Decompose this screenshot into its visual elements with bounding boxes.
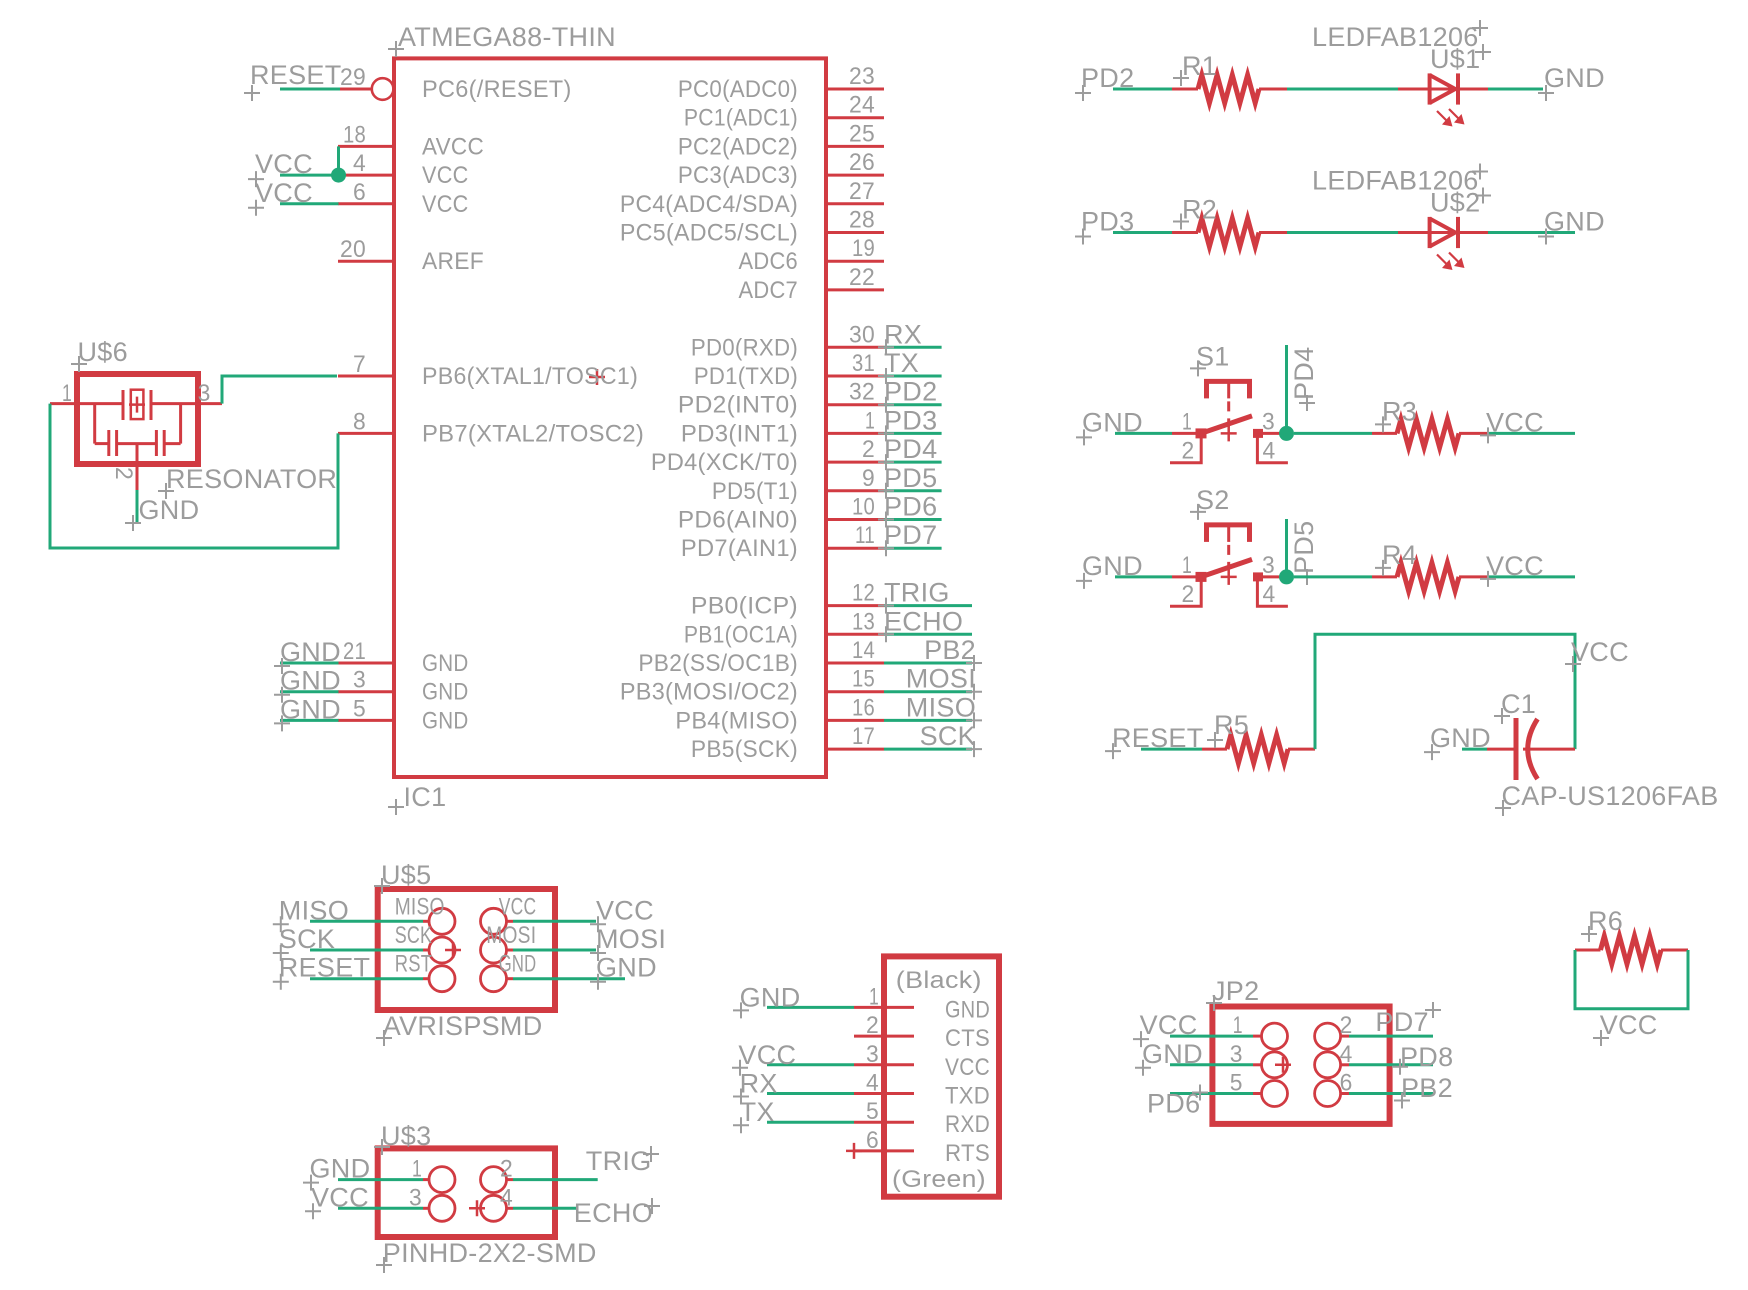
svg-text:8: 8 bbox=[353, 408, 366, 435]
svg-text:22: 22 bbox=[849, 264, 875, 291]
svg-text:PC3(ADC3): PC3(ADC3) bbox=[678, 162, 798, 189]
svg-text:VCC: VCC bbox=[311, 1182, 369, 1212]
svg-text:GND: GND bbox=[422, 679, 469, 706]
svg-text:20: 20 bbox=[340, 236, 366, 263]
svg-text:GND: GND bbox=[280, 666, 341, 696]
svg-text:VCC: VCC bbox=[1486, 551, 1544, 581]
svg-text:PD5(T1): PD5(T1) bbox=[712, 478, 798, 505]
svg-text:PD4(XCK/T0): PD4(XCK/T0) bbox=[651, 449, 798, 476]
svg-text:PC5(ADC5/SCL): PC5(ADC5/SCL) bbox=[620, 220, 798, 247]
svg-text:TX: TX bbox=[740, 1097, 775, 1127]
svg-text:RESET: RESET bbox=[250, 60, 342, 90]
svg-text:VCC: VCC bbox=[499, 893, 537, 920]
svg-text:JP2: JP2 bbox=[1212, 976, 1259, 1006]
svg-text:CTS: CTS bbox=[945, 1025, 990, 1052]
svg-text:GND: GND bbox=[139, 495, 200, 525]
svg-text:PB6(XTAL1/TOSC1): PB6(XTAL1/TOSC1) bbox=[422, 363, 638, 390]
svg-text:4: 4 bbox=[353, 150, 366, 177]
svg-text:PB0(ICP): PB0(ICP) bbox=[691, 593, 798, 620]
svg-text:3: 3 bbox=[1230, 1041, 1243, 1068]
svg-text:3: 3 bbox=[353, 667, 366, 694]
svg-text:PB7(XTAL2/TOSC2): PB7(XTAL2/TOSC2) bbox=[422, 420, 644, 447]
svg-text:10: 10 bbox=[852, 494, 875, 521]
svg-text:PC6(/RESET): PC6(/RESET) bbox=[422, 76, 572, 103]
svg-text:AREF: AREF bbox=[422, 248, 484, 275]
svg-text:GND: GND bbox=[310, 1154, 371, 1184]
svg-text:SCK: SCK bbox=[920, 721, 976, 751]
svg-text:RX: RX bbox=[740, 1069, 778, 1099]
svg-text:AVCC: AVCC bbox=[422, 133, 484, 160]
svg-text:11: 11 bbox=[855, 522, 875, 549]
svg-text:2: 2 bbox=[1182, 437, 1195, 464]
svg-text:27: 27 bbox=[849, 178, 875, 205]
svg-text:VCC: VCC bbox=[1486, 407, 1544, 437]
svg-text:RTS: RTS bbox=[945, 1140, 990, 1167]
svg-text:IC1: IC1 bbox=[404, 782, 447, 812]
svg-text:PD5: PD5 bbox=[884, 463, 937, 493]
svg-text:28: 28 bbox=[849, 207, 875, 234]
svg-text:GND: GND bbox=[1142, 1039, 1203, 1069]
svg-text:PD7: PD7 bbox=[884, 520, 937, 550]
svg-text:2: 2 bbox=[1340, 1012, 1353, 1039]
svg-text:1: 1 bbox=[412, 1156, 422, 1183]
svg-text:PB5(SCK): PB5(SCK) bbox=[691, 736, 798, 763]
svg-text:GND: GND bbox=[280, 637, 341, 667]
svg-text:GND: GND bbox=[499, 951, 537, 978]
svg-text:4: 4 bbox=[1263, 437, 1276, 464]
svg-text:TX: TX bbox=[884, 348, 919, 378]
svg-text:ADC6: ADC6 bbox=[739, 248, 799, 275]
svg-text:MOSI: MOSI bbox=[596, 924, 666, 954]
svg-text:ATMEGA88-THIN: ATMEGA88-THIN bbox=[398, 22, 616, 52]
svg-text:5: 5 bbox=[1230, 1070, 1243, 1097]
svg-text:PD2: PD2 bbox=[884, 377, 937, 407]
svg-text:29: 29 bbox=[340, 64, 366, 91]
svg-text:R2: R2 bbox=[1182, 195, 1217, 225]
svg-text:S2: S2 bbox=[1196, 485, 1230, 515]
svg-text:GND: GND bbox=[422, 707, 469, 734]
svg-text:RX: RX bbox=[884, 319, 922, 349]
svg-text:MISO: MISO bbox=[906, 692, 976, 722]
svg-text:C1: C1 bbox=[1501, 689, 1536, 719]
svg-text:6: 6 bbox=[866, 1127, 879, 1154]
svg-text:23: 23 bbox=[849, 63, 875, 90]
svg-text:4: 4 bbox=[1263, 581, 1276, 608]
svg-text:U$2: U$2 bbox=[1430, 188, 1480, 218]
svg-text:2: 2 bbox=[862, 436, 875, 463]
svg-text:VCC: VCC bbox=[255, 149, 313, 179]
svg-text:R6: R6 bbox=[1588, 906, 1623, 936]
svg-text:25: 25 bbox=[849, 120, 875, 147]
svg-text:S1: S1 bbox=[1196, 341, 1230, 371]
svg-text:GND: GND bbox=[422, 650, 469, 677]
svg-text:2: 2 bbox=[500, 1156, 513, 1183]
svg-text:9: 9 bbox=[862, 465, 875, 492]
svg-text:1: 1 bbox=[1233, 1012, 1243, 1039]
svg-text:3: 3 bbox=[1262, 552, 1275, 579]
svg-text:PB2: PB2 bbox=[924, 635, 976, 665]
svg-text:MISO: MISO bbox=[279, 895, 349, 925]
svg-text:GND: GND bbox=[596, 953, 657, 983]
svg-text:PC4(ADC4/SDA): PC4(ADC4/SDA) bbox=[620, 191, 798, 218]
svg-text:PC0(ADC0): PC0(ADC0) bbox=[678, 76, 798, 103]
svg-text:3: 3 bbox=[1262, 408, 1275, 435]
svg-text:GND: GND bbox=[1544, 207, 1605, 237]
svg-text:3: 3 bbox=[409, 1184, 422, 1211]
svg-text:6: 6 bbox=[353, 179, 366, 206]
svg-text:4: 4 bbox=[1340, 1041, 1353, 1068]
svg-text:5: 5 bbox=[866, 1098, 879, 1125]
svg-text:14: 14 bbox=[852, 637, 875, 664]
svg-text:PB3(MOSI/OC2): PB3(MOSI/OC2) bbox=[620, 679, 798, 706]
svg-text:6: 6 bbox=[1340, 1070, 1353, 1097]
svg-text:VCC: VCC bbox=[596, 895, 654, 925]
svg-text:19: 19 bbox=[852, 235, 875, 262]
svg-text:RXD: RXD bbox=[945, 1111, 990, 1138]
svg-text:U$6: U$6 bbox=[78, 337, 128, 367]
svg-text:SCK: SCK bbox=[279, 924, 335, 954]
svg-text:VCC: VCC bbox=[945, 1054, 990, 1081]
svg-text:31: 31 bbox=[852, 350, 875, 377]
svg-text:26: 26 bbox=[849, 149, 875, 176]
svg-text:RESONATOR: RESONATOR bbox=[166, 464, 337, 494]
svg-text:RESET: RESET bbox=[279, 953, 371, 983]
svg-text:16: 16 bbox=[852, 694, 875, 721]
svg-text:1: 1 bbox=[1182, 552, 1192, 579]
svg-text:32: 32 bbox=[849, 379, 875, 406]
svg-text:PD4: PD4 bbox=[1289, 347, 1319, 400]
svg-text:TRIG: TRIG bbox=[586, 1146, 652, 1176]
svg-text:PD3(INT1): PD3(INT1) bbox=[681, 420, 798, 447]
svg-text:PD6(AIN0): PD6(AIN0) bbox=[678, 507, 798, 534]
svg-text:1: 1 bbox=[865, 407, 875, 434]
svg-text:1: 1 bbox=[1182, 408, 1192, 435]
svg-text:PD0(RXD): PD0(RXD) bbox=[691, 334, 798, 361]
svg-text:PD8: PD8 bbox=[1400, 1042, 1453, 1072]
svg-text:1: 1 bbox=[869, 983, 879, 1010]
svg-text:VCC: VCC bbox=[1140, 1010, 1198, 1040]
svg-text:PB2: PB2 bbox=[1401, 1073, 1453, 1103]
svg-text:VCC: VCC bbox=[738, 1040, 796, 1070]
svg-text:GND: GND bbox=[280, 694, 341, 724]
svg-text:GND: GND bbox=[945, 996, 990, 1023]
svg-text:TRIG: TRIG bbox=[884, 578, 950, 608]
svg-text:MOSI: MOSI bbox=[486, 922, 536, 949]
svg-text:GND: GND bbox=[1544, 63, 1605, 93]
svg-text:ECHO: ECHO bbox=[884, 606, 963, 636]
svg-text:VCC: VCC bbox=[1600, 1010, 1658, 1040]
svg-text:PD7: PD7 bbox=[1375, 1007, 1428, 1037]
svg-text:CAP-US1206FAB: CAP-US1206FAB bbox=[1502, 781, 1719, 811]
svg-text:(Green): (Green) bbox=[892, 1166, 986, 1193]
svg-text:PD1(TXD): PD1(TXD) bbox=[694, 363, 798, 390]
svg-text:(Black): (Black) bbox=[896, 967, 982, 994]
svg-text:ECHO: ECHO bbox=[574, 1198, 653, 1228]
svg-text:PD5: PD5 bbox=[1289, 521, 1319, 574]
svg-text:R1: R1 bbox=[1182, 51, 1217, 81]
svg-text:2: 2 bbox=[866, 1012, 879, 1039]
svg-text:R3: R3 bbox=[1382, 396, 1417, 426]
svg-text:MISO: MISO bbox=[395, 893, 445, 920]
svg-text:R4: R4 bbox=[1382, 540, 1417, 570]
svg-text:18: 18 bbox=[343, 121, 366, 148]
svg-text:30: 30 bbox=[849, 321, 875, 348]
svg-text:13: 13 bbox=[852, 608, 875, 635]
svg-text:4: 4 bbox=[866, 1070, 879, 1097]
svg-text:PB4(MISO): PB4(MISO) bbox=[675, 707, 798, 734]
svg-text:PD6: PD6 bbox=[884, 492, 937, 522]
svg-text:PD7(AIN1): PD7(AIN1) bbox=[681, 535, 798, 562]
svg-text:12: 12 bbox=[852, 580, 875, 607]
svg-text:MOSI: MOSI bbox=[906, 664, 976, 694]
svg-text:PD3: PD3 bbox=[884, 405, 937, 435]
svg-text:4: 4 bbox=[500, 1184, 513, 1211]
svg-text:PINHD-2X2-SMD: PINHD-2X2-SMD bbox=[383, 1238, 597, 1268]
svg-text:21: 21 bbox=[343, 638, 366, 665]
svg-text:VCC: VCC bbox=[1571, 637, 1629, 667]
svg-text:PC1(ADC1): PC1(ADC1) bbox=[684, 105, 798, 132]
svg-text:PD4: PD4 bbox=[884, 434, 937, 464]
svg-text:24: 24 bbox=[849, 92, 875, 119]
svg-text:5: 5 bbox=[353, 695, 366, 722]
svg-text:VCC: VCC bbox=[422, 162, 469, 189]
svg-text:AVRISPSMD: AVRISPSMD bbox=[383, 1011, 543, 1041]
svg-text:PB2(SS/OC1B): PB2(SS/OC1B) bbox=[638, 650, 798, 677]
svg-text:3: 3 bbox=[866, 1041, 879, 1068]
svg-text:TXD: TXD bbox=[945, 1083, 990, 1110]
svg-text:2: 2 bbox=[110, 467, 137, 480]
svg-text:7: 7 bbox=[353, 351, 366, 378]
svg-text:U$1: U$1 bbox=[1430, 44, 1480, 74]
svg-text:17: 17 bbox=[852, 723, 875, 750]
svg-text:PB1(OC1A): PB1(OC1A) bbox=[684, 621, 798, 648]
svg-text:SCK: SCK bbox=[395, 922, 433, 949]
svg-text:15: 15 bbox=[852, 666, 875, 693]
svg-text:R5: R5 bbox=[1214, 710, 1249, 740]
svg-text:VCC: VCC bbox=[255, 178, 313, 208]
svg-text:VCC: VCC bbox=[422, 191, 469, 218]
svg-text:GND: GND bbox=[740, 982, 801, 1012]
svg-text:RST: RST bbox=[395, 951, 433, 978]
svg-text:PC2(ADC2): PC2(ADC2) bbox=[678, 133, 798, 160]
svg-text:2: 2 bbox=[1182, 581, 1195, 608]
svg-text:PD2(INT0): PD2(INT0) bbox=[678, 392, 798, 419]
svg-text:ADC7: ADC7 bbox=[739, 277, 799, 304]
